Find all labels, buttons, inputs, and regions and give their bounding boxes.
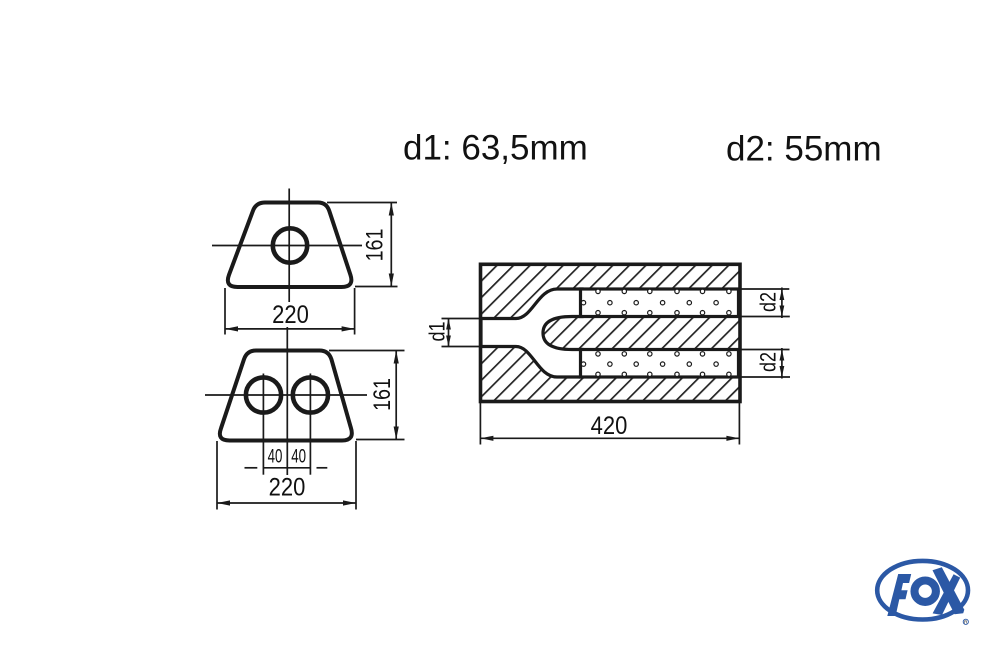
logo letter F <box>887 574 911 616</box>
dim d1 extension top <box>442 318 480 320</box>
svg-text:161: 161 <box>361 229 388 262</box>
arrow 220 left fig2 <box>217 500 230 505</box>
dim d2 lower extension top <box>742 349 790 351</box>
lower perforated pipe <box>581 350 739 378</box>
horizontal centerline fig2 <box>205 394 367 396</box>
arrow 420 right <box>726 436 739 441</box>
arrow d2 upper down <box>780 306 785 317</box>
logo letter X stroke A <box>933 567 965 614</box>
left pipe centerline fig2 <box>262 374 264 475</box>
svg-text:40: 40 <box>268 446 283 467</box>
left pipe hole fig2 <box>246 377 281 412</box>
svg-text:40: 40 <box>291 446 306 467</box>
dim d2 lower line <box>781 348 783 379</box>
horizontal centerline fig1 <box>212 245 362 247</box>
dim 420 extension right <box>738 403 740 445</box>
right pipe centerline fig2 <box>309 374 311 475</box>
inlet hole fig1 <box>273 228 307 262</box>
dim 420 extension left <box>479 403 481 445</box>
arrow 420 left <box>480 436 493 441</box>
dim 220 extension left fig2 <box>216 441 218 510</box>
muffler body hatched <box>481 264 741 401</box>
dim 220 extension right fig1 <box>354 288 356 335</box>
dim 220 extension left fig1 <box>224 288 226 335</box>
perforation dots upper <box>581 289 731 315</box>
logo letter X stroke B <box>933 574 961 615</box>
dim 40 dash left fig2 <box>245 467 258 469</box>
upper perforated pipe <box>581 289 739 317</box>
svg-text:220: 220 <box>269 473 306 501</box>
svg-text:d2: 55mm: d2: 55mm <box>726 130 882 169</box>
svg-text:d1: 63,5mm: d1: 63,5mm <box>403 129 588 168</box>
arrow 161 down fig2 <box>394 427 399 440</box>
dim d2 upper extension top <box>742 288 790 290</box>
trapezoid shell fig2 <box>220 351 352 441</box>
arrow 161 down fig1 <box>389 274 394 287</box>
arrow d1 down <box>446 336 451 347</box>
trapezoid shell fig1 <box>228 203 352 288</box>
logo ellipse ring <box>877 561 968 620</box>
dim 161 extension top fig2 <box>329 350 405 352</box>
dim 220 extension right fig2 <box>355 441 357 510</box>
dim d1 extension bottom <box>442 346 480 348</box>
right pipe hole fig2 <box>293 377 328 412</box>
arrow d2 lower up <box>780 350 785 361</box>
vertical centerline fig2 <box>286 327 288 475</box>
svg-text:220: 220 <box>272 301 309 329</box>
dim 161 line fig1 <box>390 203 392 287</box>
dim d2 upper extension bottom <box>742 316 790 318</box>
logo letter O <box>915 581 936 602</box>
logo registered mark <box>963 619 968 624</box>
svg-text:d2: d2 <box>757 352 781 372</box>
dim 40 line fig2 <box>263 467 310 469</box>
dim 220 line fig1 <box>225 328 355 330</box>
dim 161 extension bottom fig2 <box>356 439 405 441</box>
arrow 220 right fig1 <box>342 326 355 331</box>
Y-pipe white bore <box>481 289 582 377</box>
vertical centerline fig1 <box>288 189 290 303</box>
arrow d2 upper up <box>780 289 785 300</box>
arrow 161 up fig2 <box>394 351 399 364</box>
svg-text:420: 420 <box>591 412 628 440</box>
arrow 220 left fig1 <box>225 326 238 331</box>
arrow 220 right fig2 <box>343 500 356 505</box>
dim d2 lower extension bottom <box>742 376 791 378</box>
arrow d1 up <box>446 319 451 330</box>
dim 161 extension top fig1 <box>327 202 397 204</box>
perforation dots lower <box>581 352 731 377</box>
dim 161 extension bottom fig1 <box>355 286 398 288</box>
svg-text:d2: d2 <box>757 292 781 312</box>
svg-text:161: 161 <box>368 378 395 411</box>
dim 40 dash right fig2 <box>317 467 328 469</box>
dim 420 line <box>480 437 739 439</box>
dim d1 line <box>448 319 450 347</box>
dim 161 line fig2 <box>395 351 397 440</box>
arrow d2 lower down <box>780 366 785 377</box>
dim 220 line fig2 <box>217 502 356 504</box>
dim d2 upper line <box>781 288 783 319</box>
svg-text:d1: d1 <box>426 321 450 341</box>
arrow 161 up fig1 <box>389 203 394 216</box>
